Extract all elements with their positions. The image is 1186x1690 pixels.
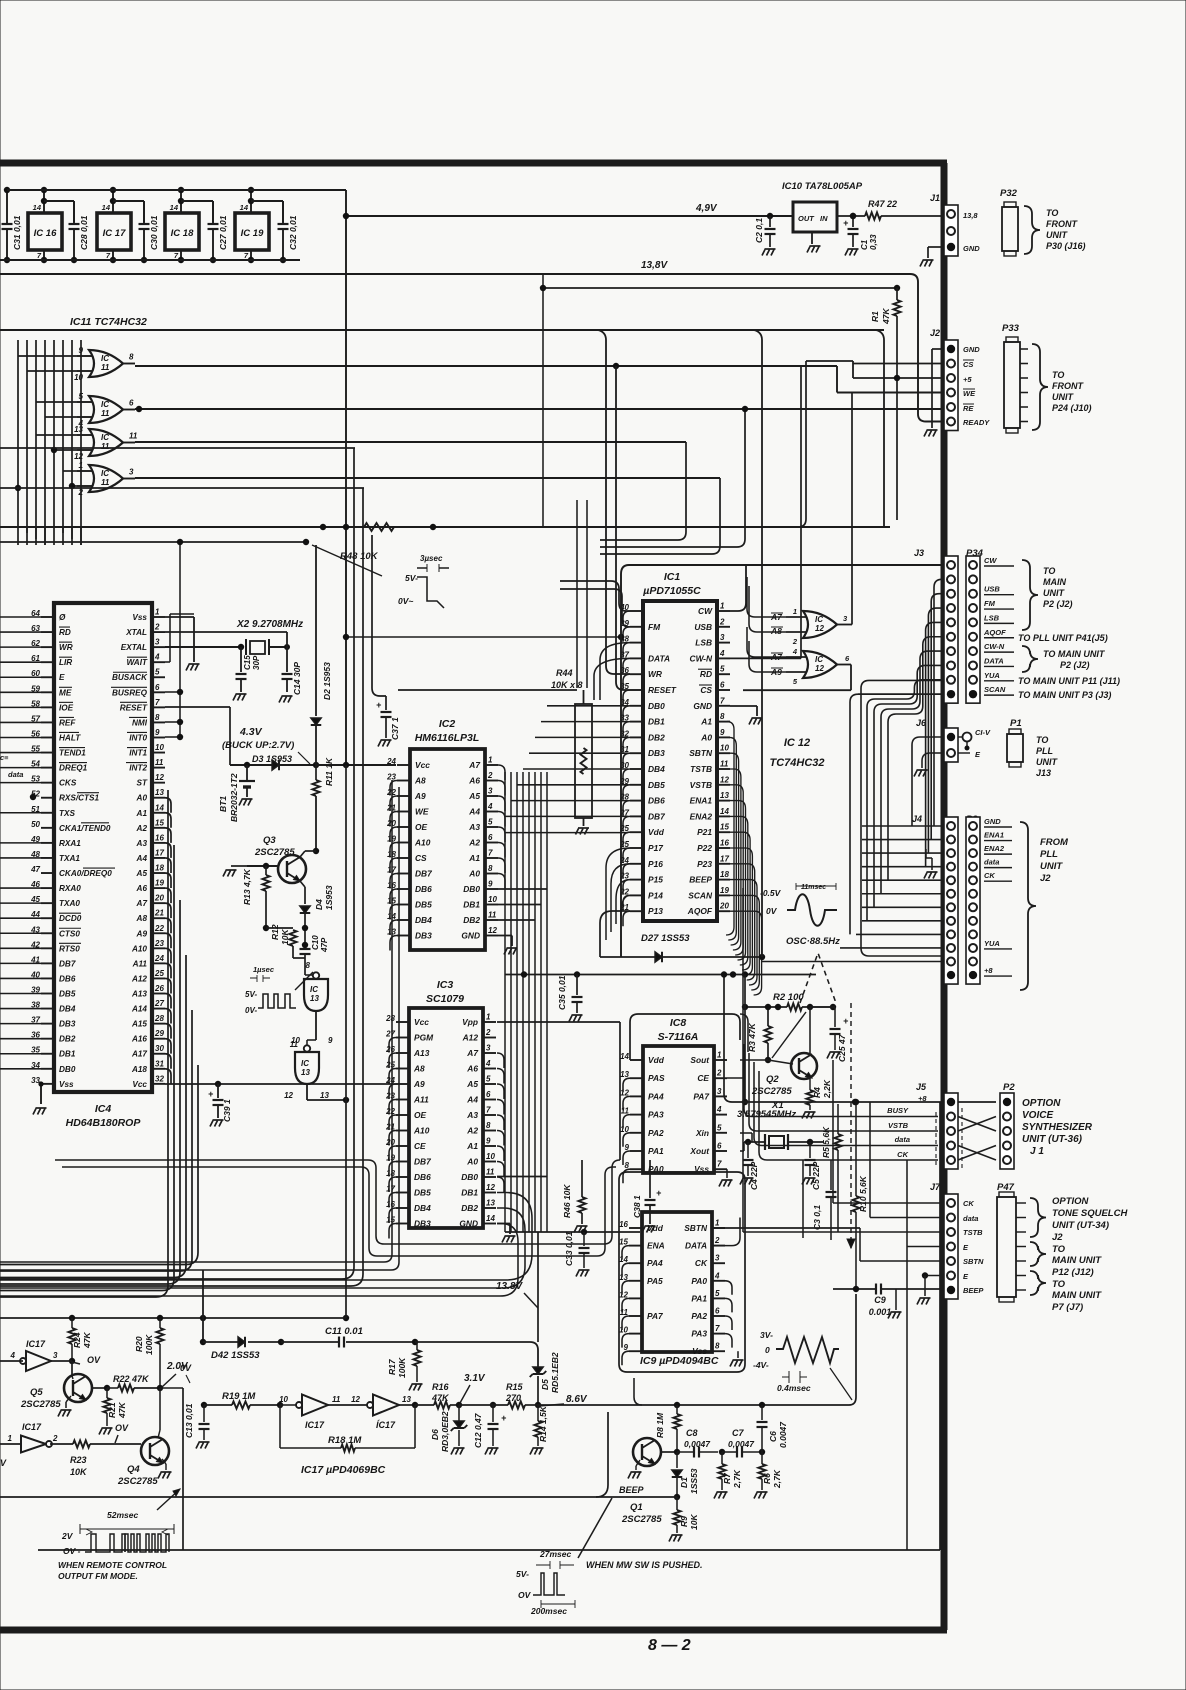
svg-text:A14: A14 <box>131 1005 147 1014</box>
wire Q2 base <box>740 1060 793 1064</box>
svg-text:21: 21 <box>154 909 164 918</box>
wire x203 vert <box>200 1270 206 1345</box>
wire right vert x940 <box>939 1102 941 1550</box>
wire 4.9V line <box>343 213 793 219</box>
svg-text:1S953: 1S953 <box>324 885 334 910</box>
wire gate input links <box>15 356 77 491</box>
svg-text:LSB: LSB <box>984 613 1000 622</box>
svg-text:+: + <box>843 1016 849 1026</box>
svg-text:E: E <box>59 673 65 682</box>
svg-text:DB6: DB6 <box>59 974 76 983</box>
svg-text:A1: A1 <box>700 717 712 727</box>
wire IC11b out <box>135 406 944 412</box>
svg-text:10: 10 <box>720 744 729 753</box>
svg-text:MAIN: MAIN <box>1043 577 1066 587</box>
svg-text:13: 13 <box>402 1395 411 1404</box>
svg-text:D4: D4 <box>314 899 324 910</box>
wire +5 rail y527 <box>0 524 890 530</box>
svg-text:0V-: 0V- <box>245 1006 257 1015</box>
diode D27 1SS53 <box>600 933 765 962</box>
svg-text:FM: FM <box>648 622 661 632</box>
wire x803 vert <box>802 1160 804 1238</box>
svg-text:7: 7 <box>155 698 160 707</box>
capacitor C37 <box>372 535 400 747</box>
svg-text:25: 25 <box>154 969 164 978</box>
svg-text:ST: ST <box>137 779 148 788</box>
wire IC3 DB right <box>497 1176 547 1178</box>
svg-text:BEEP: BEEP <box>963 1286 984 1295</box>
battery BT1 <box>218 762 255 822</box>
svg-text:data: data <box>984 858 999 867</box>
border frame bottom edge <box>0 1627 947 1634</box>
svg-text:A6: A6 <box>466 1064 478 1074</box>
label 8.6V <box>539 1394 588 1406</box>
svg-text:TXA1: TXA1 <box>59 854 80 863</box>
svg-text:14: 14 <box>102 203 111 212</box>
wire J2 +5 row <box>853 364 944 382</box>
svg-text:C39 1: C39 1 <box>222 1099 232 1122</box>
labels J5 left <box>887 1106 910 1159</box>
svg-text:FRONT: FRONT <box>1052 381 1084 391</box>
connector P32 <box>1000 188 1086 256</box>
svg-text:UNIT: UNIT <box>1036 757 1058 767</box>
svg-text:+: + <box>843 218 849 228</box>
svg-text:11: 11 <box>486 1168 495 1177</box>
svg-text:0.0047: 0.0047 <box>778 1421 788 1448</box>
capacitor C1 0.33 <box>837 213 878 256</box>
wire C10 to IC13a <box>295 961 313 990</box>
svg-text:11: 11 <box>290 1040 299 1049</box>
svg-text:WE: WE <box>963 389 976 398</box>
dashed triangle <box>800 953 855 1248</box>
wire P13 drop <box>600 911 630 957</box>
wire IC11a out to J2 WE <box>135 363 944 393</box>
svg-text:ENA2: ENA2 <box>984 844 1005 853</box>
svg-text:0V: 0V <box>766 906 778 916</box>
svg-text:TO: TO <box>1036 735 1048 745</box>
wire IC3 gnd pin14 <box>497 1224 516 1243</box>
svg-text:TXA0: TXA0 <box>59 899 80 908</box>
diode D2 1S953 <box>311 545 332 765</box>
svg-text:20: 20 <box>719 902 729 911</box>
svg-text:4,9V: 4,9V <box>695 203 718 214</box>
svg-text:18: 18 <box>155 864 164 873</box>
svg-text:CKA0/DREQ0: CKA0/DREQ0 <box>59 869 112 878</box>
svg-text:9: 9 <box>486 1137 491 1146</box>
svg-text:R8 1M: R8 1M <box>655 1412 665 1438</box>
wire left loops exit <box>0 765 363 1321</box>
svg-text:+: + <box>376 700 382 710</box>
svg-text:DB5: DB5 <box>414 1188 431 1198</box>
wire Q4 emitter <box>158 1459 172 1479</box>
wire IC1 pin37 drop <box>594 658 630 700</box>
label X2 <box>236 619 303 630</box>
svg-text:A2: A2 <box>468 838 480 848</box>
svg-text:C35 0,01: C35 0,01 <box>557 975 567 1010</box>
svg-text:A7: A7 <box>466 1048 478 1058</box>
svg-text:YUA: YUA <box>984 939 1000 948</box>
svg-text:GND: GND <box>693 701 712 711</box>
svg-text:12: 12 <box>488 926 497 935</box>
wire IC3 DB arcs <box>0 1193 532 1297</box>
svg-text:J6: J6 <box>916 718 927 728</box>
svg-text:INT1: INT1 <box>129 749 147 758</box>
svg-text:18: 18 <box>720 870 729 879</box>
svg-text:OE: OE <box>414 1110 427 1120</box>
wire Vcc pin32 <box>165 1081 396 1087</box>
svg-text:A3: A3 <box>136 839 148 848</box>
connector P34 <box>966 548 984 703</box>
svg-text:OV: OV <box>115 1423 129 1433</box>
svg-text:13,8: 13,8 <box>963 211 978 220</box>
svg-text:+5: +5 <box>963 375 972 384</box>
svg-text:OV: OV <box>518 1590 532 1600</box>
svg-text:P32: P32 <box>1000 188 1018 199</box>
svg-text:UNIT: UNIT <box>1040 861 1063 872</box>
svg-text:5: 5 <box>720 665 725 674</box>
svg-text:TO: TO <box>1052 370 1064 380</box>
svg-text:12: 12 <box>284 1091 293 1100</box>
capacitor C3 0.1 <box>812 1160 837 1240</box>
wire +8 rail <box>721 971 944 1105</box>
svg-text:29: 29 <box>154 1029 164 1038</box>
diode D3 <box>230 754 319 770</box>
svg-text:DB2: DB2 <box>461 1203 478 1213</box>
wire loop x762 <box>754 330 762 957</box>
page number 8-2 <box>648 1637 691 1654</box>
svg-text:GND: GND <box>963 244 980 253</box>
zener D6 <box>430 1405 467 1455</box>
svg-text:0.4msec: 0.4msec <box>777 1383 811 1393</box>
wire Q3 collector <box>300 851 316 857</box>
svg-text:2,2K: 2,2K <box>822 1079 832 1099</box>
label C8 <box>684 1428 711 1449</box>
IC19 bypass gate box <box>235 187 283 263</box>
resistor R9 10K <box>669 1497 699 1542</box>
svg-text:ENA1: ENA1 <box>690 796 713 806</box>
svg-text:R4: R4 <box>812 1087 822 1098</box>
brace P34 cwn <box>1022 646 1106 672</box>
svg-text:DB4: DB4 <box>414 1203 431 1213</box>
svg-text:1: 1 <box>488 756 493 765</box>
svg-text:16: 16 <box>720 839 729 848</box>
wire loop x720 <box>600 478 720 554</box>
svg-text:AQOF: AQOF <box>687 906 713 916</box>
label IC17 chip <box>301 1464 386 1476</box>
svg-text:11: 11 <box>101 363 110 372</box>
svg-text:11: 11 <box>488 911 497 920</box>
svg-text:R10 5,6K: R10 5,6K <box>858 1175 868 1212</box>
svg-text:C37 1: C37 1 <box>390 717 400 740</box>
wire J2 gnd <box>924 349 944 437</box>
wire Q5 base r22 <box>92 1384 163 1391</box>
svg-text:IC 16: IC 16 <box>34 228 57 239</box>
svg-text:16: 16 <box>155 833 164 842</box>
svg-text:5V-: 5V- <box>245 990 257 999</box>
svg-text:47K: 47K <box>881 308 891 325</box>
wire IC2 DB right <box>498 889 547 920</box>
wire IC12b inputs <box>747 627 786 672</box>
wire IC3 left hooks <box>389 1038 396 1239</box>
svg-text:RXA1: RXA1 <box>59 839 81 848</box>
svg-text:USB: USB <box>694 622 712 632</box>
wire loop x745 <box>600 406 748 547</box>
svg-text:J2: J2 <box>1052 1232 1063 1243</box>
connector J6 <box>916 718 958 762</box>
svg-text:11: 11 <box>101 478 110 487</box>
wire bottom long rail <box>38 1549 940 1551</box>
svg-text:A17: A17 <box>131 1050 147 1059</box>
svg-text:RESET: RESET <box>120 703 148 712</box>
svg-text:C28 0,01: C28 0,01 <box>79 215 89 250</box>
svg-text:R16: R16 <box>432 1382 450 1392</box>
svg-text:R22 47K: R22 47K <box>113 1374 150 1384</box>
svg-text:C9: C9 <box>874 1295 886 1305</box>
svg-text:13: 13 <box>486 1199 495 1208</box>
svg-text:IC4: IC4 <box>95 1103 112 1115</box>
waveform sawtooth <box>753 1330 852 1400</box>
label yua <box>1018 676 1120 686</box>
svg-text:GND: GND <box>461 931 480 941</box>
svg-text:13: 13 <box>310 994 319 1003</box>
svg-text:1µsec: 1µsec <box>253 965 275 974</box>
capacitor C14 <box>279 647 302 703</box>
svg-text:+: + <box>501 1413 507 1423</box>
IC9 uPD4094BC <box>619 1212 725 1367</box>
svg-text:TO PLL UNIT P41(J5): TO PLL UNIT P41(J5) <box>1018 633 1108 643</box>
wire rail y542 <box>0 541 306 543</box>
svg-text:13: 13 <box>301 1068 310 1077</box>
svg-text:SBTN: SBTN <box>963 1257 984 1266</box>
svg-text:1: 1 <box>155 608 160 617</box>
svg-text:+: + <box>208 1089 214 1099</box>
svg-text:HD64B180ROP: HD64B180ROP <box>66 1117 142 1129</box>
svg-text:26: 26 <box>154 984 164 993</box>
svg-text:P15: P15 <box>648 875 663 885</box>
svg-text:BT1: BT1 <box>218 796 228 812</box>
svg-text:2: 2 <box>716 1069 722 1078</box>
wire rail y542b <box>303 539 309 545</box>
connector J2 <box>930 328 990 431</box>
svg-text:data: data <box>8 770 23 779</box>
svg-text:P22: P22 <box>697 843 712 853</box>
svg-text:3: 3 <box>720 633 725 642</box>
resistor R6 2.7K <box>754 1452 782 1499</box>
svg-text:ÍC17: ÍC17 <box>376 1420 396 1430</box>
svg-text:PA2: PA2 <box>691 1311 707 1321</box>
svg-text:17: 17 <box>720 854 729 863</box>
wire Sout riser <box>740 1014 748 1052</box>
wire +5 loop <box>798 361 806 527</box>
svg-text:D1: D1 <box>679 1477 689 1488</box>
svg-text:J5: J5 <box>916 1082 927 1092</box>
svg-text:Vdd: Vdd <box>647 1223 664 1233</box>
svg-text:IC: IC <box>101 354 109 363</box>
svg-text:P13: P13 <box>648 906 663 916</box>
svg-text:A6: A6 <box>136 884 148 893</box>
svg-text:50: 50 <box>31 820 40 829</box>
label OV b <box>115 1423 129 1443</box>
svg-text:5: 5 <box>488 818 493 827</box>
svg-text:IC: IC <box>310 985 318 994</box>
wire IC3 Vpp <box>497 1022 620 1160</box>
svg-text:CW: CW <box>984 556 997 565</box>
or-gate IC11-d <box>77 461 135 497</box>
svg-text:Xout: Xout <box>689 1146 710 1156</box>
svg-text:2,7K: 2,7K <box>772 1469 782 1489</box>
svg-text:PLL: PLL <box>1040 849 1058 860</box>
svg-text:RD: RD <box>59 628 71 637</box>
svg-text:data: data <box>963 1214 978 1223</box>
connector J4 <box>912 814 958 984</box>
resistor network R44 10Kx8 <box>551 668 592 835</box>
svg-text:1: 1 <box>720 602 725 611</box>
svg-text:A0: A0 <box>466 1157 478 1167</box>
svg-text:28: 28 <box>154 1014 164 1023</box>
svg-text:J2: J2 <box>1040 873 1051 884</box>
svg-text:ENA: ENA <box>647 1241 665 1251</box>
label X1 <box>737 1100 796 1120</box>
svg-text:Vcc: Vcc <box>414 1017 429 1027</box>
diode D4 1S953 <box>300 885 334 945</box>
svg-text:MAIN UNIT: MAIN UNIT <box>1052 1290 1102 1301</box>
svg-text:TXS: TXS <box>59 809 75 818</box>
svg-text:R21: R21 <box>107 1402 117 1418</box>
svg-text:0,0047: 0,0047 <box>684 1439 711 1449</box>
svg-text:DB3: DB3 <box>648 748 665 758</box>
svg-text:UNIT: UNIT <box>1046 230 1068 240</box>
svg-text:VOICE: VOICE <box>1022 1110 1053 1121</box>
svg-text:8: 8 <box>155 713 160 722</box>
wire Q2 collector <box>809 1007 811 1054</box>
svg-text:0,33: 0,33 <box>869 234 878 250</box>
svg-text:A2: A2 <box>466 1126 478 1136</box>
svg-text:FRONT: FRONT <box>1046 219 1078 229</box>
svg-text:A18: A18 <box>131 1065 147 1074</box>
svg-text:DB4: DB4 <box>415 915 432 925</box>
IC16 bypass gate box <box>28 187 74 263</box>
svg-text:J1: J1 <box>930 193 940 203</box>
svg-text:2: 2 <box>487 771 493 780</box>
svg-text:TO: TO <box>1043 566 1055 576</box>
svg-text:Vdd: Vdd <box>648 1055 665 1065</box>
svg-text:19: 19 <box>155 879 164 888</box>
label 2.0V <box>162 1361 189 1387</box>
svg-text:A4: A4 <box>136 854 148 863</box>
svg-text:6: 6 <box>717 1142 722 1151</box>
svg-text:Vcc: Vcc <box>132 1080 147 1089</box>
svg-text:BEEP: BEEP <box>689 875 712 885</box>
svg-text:13: 13 <box>155 788 164 797</box>
svg-text:IC1: IC1 <box>664 571 681 583</box>
svg-text:7: 7 <box>717 1160 722 1169</box>
connector P1 <box>1007 718 1058 778</box>
svg-text:3V-: 3V- <box>760 1330 773 1340</box>
IC10 TA78L005AP <box>782 181 863 253</box>
svg-text:10K x 8: 10K x 8 <box>551 680 583 690</box>
svg-text:RD5.1EB2: RD5.1EB2 <box>550 1352 560 1393</box>
brace P2 from pll <box>1020 822 1069 990</box>
svg-text:PA3: PA3 <box>648 1110 664 1120</box>
svg-text:DB4: DB4 <box>648 764 665 774</box>
labels J7 <box>963 1199 984 1295</box>
svg-text:CS: CS <box>963 360 973 369</box>
wire J7 E1 <box>907 1160 944 1550</box>
brace P47 p7 <box>1030 1271 1102 1313</box>
svg-text:OPTION: OPTION <box>1052 1196 1090 1207</box>
wire x745 vert <box>742 975 748 1106</box>
svg-text:-0.5V: -0.5V <box>760 888 782 898</box>
label 13.8V <box>641 260 668 271</box>
wire J6 CI-V <box>958 728 991 759</box>
wire DB bus verticals <box>505 772 547 1232</box>
wire J6 gnd <box>914 753 944 777</box>
svg-text:IN: IN <box>820 214 828 223</box>
svg-text:A13: A13 <box>131 990 147 999</box>
IC11 label <box>70 316 147 328</box>
wire J7 TSTB <box>743 888 944 1232</box>
svg-text:C33 0,01: C33 0,01 <box>564 1231 574 1266</box>
svg-text:RD3,0EB2: RD3,0EB2 <box>440 1411 450 1452</box>
svg-text:C8: C8 <box>686 1428 698 1438</box>
svg-text:14: 14 <box>155 803 164 812</box>
svg-text:DB5: DB5 <box>415 900 432 910</box>
wire y637 rail <box>343 634 624 640</box>
svg-text:XTAL: XTAL <box>125 628 147 637</box>
wire y974 rail <box>505 971 816 977</box>
svg-text:R13 4,7K: R13 4,7K <box>242 868 252 905</box>
svg-text:6: 6 <box>486 1090 491 1099</box>
svg-text:A15: A15 <box>131 1020 147 1029</box>
svg-text:DB3: DB3 <box>59 1020 76 1029</box>
svg-text:6: 6 <box>155 683 160 692</box>
svg-text:4: 4 <box>10 1351 16 1360</box>
svg-text:UNIT: UNIT <box>1043 588 1065 598</box>
svg-text:REF: REF <box>59 718 76 727</box>
svg-text:CK: CK <box>984 871 995 880</box>
svg-text:IC8: IC8 <box>670 1017 687 1029</box>
svg-text:TO MAIN UNIT: TO MAIN UNIT <box>1043 649 1106 659</box>
label when remote <box>58 1560 167 1581</box>
svg-text:A0: A0 <box>700 732 712 742</box>
svg-text:DB1: DB1 <box>648 717 665 727</box>
capacitor C9 0.001 <box>869 1295 892 1317</box>
svg-text:9: 9 <box>155 728 160 737</box>
capacitor C39 <box>208 1084 232 1127</box>
wire top bus drop at x346 <box>345 190 347 765</box>
svg-text:R11 1K: R11 1K <box>324 757 334 786</box>
svg-text:A11: A11 <box>413 1095 429 1105</box>
svg-text:P14: P14 <box>648 890 663 900</box>
svg-text:8 — 2: 8 — 2 <box>648 1637 691 1654</box>
svg-text:R17: R17 <box>387 1358 397 1375</box>
svg-text:J2: J2 <box>930 328 940 338</box>
wire y330 drop x884 <box>876 330 884 527</box>
svg-text:IC 12: IC 12 <box>784 737 810 749</box>
svg-text:TONE SQUELCH: TONE SQUELCH <box>1052 1208 1128 1219</box>
resistor R19 1M <box>222 1391 283 1409</box>
svg-text:PAS: PAS <box>648 1073 665 1083</box>
svg-text:µPD71055C: µPD71055C <box>642 585 701 597</box>
transistor Q3 <box>254 835 306 883</box>
svg-text:DB1: DB1 <box>463 900 480 910</box>
resistor R3 47K <box>747 1004 772 1063</box>
svg-text:3: 3 <box>53 1351 58 1360</box>
svg-text:3.579545MHz: 3.579545MHz <box>737 1109 796 1120</box>
connector P33 <box>1002 323 1092 433</box>
labels P2 signals <box>984 817 1012 976</box>
svg-text:12: 12 <box>815 624 824 633</box>
